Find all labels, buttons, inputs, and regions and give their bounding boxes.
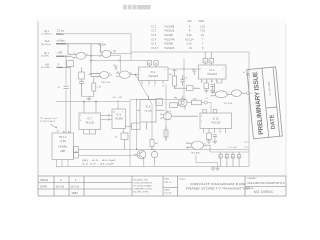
wire G4 output to IC2 — [130, 74, 139, 76]
wire long bottom y166.5 — [56, 166, 249, 168]
svg-text:74LS 132: 74LS 132 — [101, 82, 111, 84]
svg-text:3: 3 — [80, 115, 81, 117]
svg-text:4: 4 — [80, 120, 81, 122]
node B0 input label — [41, 39, 65, 46]
node junctions — [83, 101, 85, 103]
svg-text:DRN: DRN — [164, 179, 169, 181]
pin numbers — [74, 51, 230, 150]
svg-text:9: 9 — [99, 51, 100, 53]
svg-text:R7 (1000) 5V) AMD: R7 (1000) 5V) AMD — [134, 185, 153, 188]
svg-text:P.W. 15: P.W. 15 — [164, 182, 172, 184]
wire row2 — [58, 44, 103, 52]
IC9 box — [137, 96, 165, 130]
svg-text:ISSUE: ISSUE — [40, 178, 48, 182]
resistor R8 — [206, 133, 211, 139]
note arrow — [50, 124, 57, 128]
pin square A — [147, 61, 151, 65]
gate U6b — [227, 90, 246, 97]
svg-text:74LS74A: 74LS74A — [164, 37, 175, 41]
svg-text:IC 7: IC 7 — [87, 117, 92, 120]
svg-text:11: 11 — [130, 73, 132, 75]
svg-text:(4).1: (4).1 — [44, 52, 50, 55]
svg-text:40.4 kHz: 40.4 kHz — [41, 56, 49, 58]
ground — [207, 139, 212, 143]
svg-text:(2): (2) — [113, 51, 116, 53]
node junction — [183, 68, 184, 69]
svg-text:DATE: DATE — [40, 184, 47, 188]
svg-text:MULLARD SOUTHAMPTON LTD: MULLARD SOUTHAMPTON LTD — [248, 182, 285, 185]
svg-text:TR 1.2: TR 1.2 — [59, 136, 67, 139]
svg-text:16-1-80: 16-1-80 — [56, 185, 65, 188]
title cell — [179, 179, 250, 190]
svg-text:AMP: AMP — [60, 150, 65, 153]
IC2 bottom pins — [142, 81, 163, 85]
svg-text:74LS123: 74LS123 — [211, 123, 221, 125]
svg-text:A4: A4 — [63, 130, 65, 133]
svg-text:+2B: +2B — [57, 51, 62, 55]
ground — [211, 167, 216, 171]
svg-text:74LS90: 74LS90 — [115, 119, 124, 121]
svg-text:2: 2 — [97, 77, 98, 79]
cap value labels — [219, 157, 239, 159]
svg-text:MZ.049B/C: MZ.049B/C — [254, 190, 274, 194]
svg-text:12: 12 — [117, 71, 119, 73]
svg-text:14: 14 — [113, 112, 115, 114]
page right edge — [285, 24, 287, 176]
node junction — [90, 60, 91, 61]
svg-text:(B) - 4.5 - 45.2µF: (B) - 4.5 - 45.2µF — [82, 160, 117, 162]
wire long y149.3 — [79, 148, 250, 150]
svg-text:+1 (R): +1 (R) — [59, 141, 66, 143]
wire vertical x91 — [91, 44, 100, 77]
svg-text:TR.2 A(4): TR.2 A(4) — [191, 152, 201, 155]
svg-text:TP: connect 7 on 2: TP: connect 7 on 2 — [40, 117, 58, 120]
svg-text:6: 6 — [74, 58, 75, 60]
svg-text:IC 2: IC 2 — [152, 29, 157, 33]
svg-text:(2): (2) — [205, 98, 208, 100]
svg-text:74LS368: 74LS368 — [164, 24, 175, 28]
wire caps top rail — [210, 151, 249, 153]
resistor R3 — [92, 78, 96, 97]
preliminary issue stamp — [247, 67, 283, 139]
svg-text:5,10: 5,10 — [187, 33, 193, 37]
ground — [210, 89, 215, 93]
svg-text:4.1 4.5 - 41.2µF: 4.1 4.5 - 41.2µF — [82, 163, 115, 165]
svg-text:74LS86: 74LS86 — [164, 42, 173, 46]
svg-text:16: 16 — [225, 157, 227, 159]
transistor Q1 — [178, 96, 187, 111]
svg-text:DATE: DATE — [164, 188, 170, 191]
resistor R6 — [150, 140, 154, 150]
svg-text:23-1-81: 23-1-81 — [71, 185, 80, 188]
wire vertical x152 — [151, 104, 153, 140]
resistor R7 — [187, 100, 204, 105]
svg-text:+5V: +5V — [187, 19, 192, 23]
svg-text:2: 2 — [217, 81, 218, 83]
svg-text:7 16: 7 16 — [200, 29, 206, 33]
wire IC3 pin5 down — [217, 82, 223, 84]
drawn/date cell — [164, 179, 172, 195]
resistor R10 — [164, 126, 168, 141]
resistor R5 — [204, 83, 209, 89]
svg-text:IC 5: IC 5 — [152, 42, 157, 46]
amendment notes cell — [134, 180, 154, 194]
svg-text:25.8V LIMITERS (TL: 25.8V LIMITERS (TL — [134, 183, 154, 185]
svg-text:16: 16 — [232, 157, 234, 159]
svg-text:8: 8 — [204, 144, 205, 146]
node AB input label — [41, 62, 60, 69]
svg-text:1987: 1987 — [71, 191, 78, 195]
svg-text:(B) 470 Hz: (B) 470 Hz — [41, 44, 51, 46]
ground — [215, 167, 219, 171]
svg-text:74 LS 04: 74 LS 04 — [224, 103, 234, 105]
svg-text:7: 7 — [207, 81, 208, 83]
resistor R2 — [79, 67, 85, 81]
pad (2) output — [204, 101, 207, 104]
svg-text:B+0: B+0 — [45, 40, 50, 43]
wire y155.3 — [79, 154, 139, 156]
wire from D1 — [56, 33, 64, 35]
wire bus y99.7 — [130, 99, 187, 101]
svg-text:4: 4 — [200, 68, 201, 70]
svg-text:(2).1: (2).1 — [44, 30, 50, 33]
transistor Q2 — [134, 150, 146, 163]
svg-text:1: 1 — [122, 112, 123, 114]
wire IC8 top stub — [117, 100, 119, 109]
svg-text:15: 15 — [162, 86, 164, 88]
svg-text:16: 16 — [219, 157, 221, 159]
resistor R9 — [170, 103, 181, 108]
capacitor C1 polarized — [64, 86, 69, 88]
svg-text:16: 16 — [238, 157, 240, 159]
capacitor C4 — [211, 85, 215, 89]
wire G2 output — [111, 52, 133, 60]
svg-text:1: 1 — [202, 81, 203, 83]
ground — [213, 139, 218, 143]
pad pin10 — [246, 73, 248, 75]
IC parts list — [152, 19, 206, 50]
svg-text:4: 4 — [140, 69, 141, 71]
wire loop below U11 — [196, 155, 218, 167]
wire vertical x136.7 — [136, 110, 138, 149]
svg-text:4 (TP) TO ADJ 7: 4 (TP) TO ADJ 7 — [40, 120, 56, 123]
svg-text:TITLE: TITLE — [179, 179, 185, 181]
wire stubs to title area — [244, 142, 249, 147]
wire vertical x130 — [129, 100, 131, 167]
wire emitter stub — [144, 163, 155, 167]
trim pot box — [175, 86, 200, 91]
node junction — [135, 74, 137, 76]
gate U1a — [72, 52, 86, 59]
paper tint inside frame — [37, 19, 286, 197]
capacitor C10 — [237, 152, 240, 167]
svg-text:10: 10 — [187, 148, 189, 150]
wire IC9 left pin — [136, 100, 138, 111]
svg-text:74LS04: 74LS04 — [98, 44, 107, 47]
svg-text:1: 1 — [229, 91, 230, 93]
wire cluster bottom — [82, 96, 94, 98]
svg-text:74LS123: 74LS123 — [85, 123, 95, 125]
svg-text:1.2 µs: 1.2 µs — [57, 28, 65, 32]
svg-text:2: 2 — [201, 121, 202, 123]
scanner header boxes — [123, 5, 151, 10]
node C1 input label — [41, 51, 62, 58]
divider block B1 — [67, 61, 74, 67]
drawing frame left border — [37, 21, 39, 176]
svg-text:+5V → 4k7: +5V → 4k7 — [112, 97, 123, 99]
wire top bus — [61, 34, 249, 167]
svg-text:9: 9 — [154, 86, 155, 88]
svg-text:IC 1: IC 1 — [152, 24, 157, 28]
crystal box X1 — [52, 133, 79, 160]
svg-text:3: 3 — [109, 73, 110, 75]
wire gate row bus — [90, 59, 147, 62]
IC3 monostable box — [199, 52, 227, 83]
svg-text:IC 10: IC 10 — [213, 117, 220, 120]
svg-text:74LS123: 74LS123 — [207, 73, 217, 76]
svg-text:+0.4µs: +0.4µs — [57, 39, 66, 43]
svg-text:9: 9 — [212, 81, 213, 83]
svg-text:E(C)4303 - (W): E(C)4303 - (W) — [134, 180, 148, 182]
svg-text:+5V: +5V — [192, 69, 196, 71]
wire row3 — [58, 55, 72, 57]
svg-text:2 16: 2 16 — [200, 24, 206, 28]
IC2 monostable box — [139, 61, 169, 84]
svg-text:IC 3: IC 3 — [210, 68, 215, 72]
svg-text:5: 5 — [74, 53, 75, 55]
svg-text:74LS90: 74LS90 — [164, 33, 173, 37]
capacitor C2 — [79, 82, 84, 97]
wire vertical row4 down — [70, 67, 72, 133]
svg-text:FRAME STORE TV TRANSMITTER: FRAME STORE TV TRANSMITTER — [186, 186, 250, 190]
svg-text:4,10,14: 4,10,14 — [185, 37, 194, 41]
gate U11 — [186, 141, 210, 152]
capacitor C5 box — [121, 129, 128, 150]
svg-text:74LS123: 74LS123 — [164, 46, 175, 50]
IC8 box — [112, 109, 126, 129]
wire vertical bus x181 — [168, 59, 200, 105]
svg-text:IC 6,7: IC 6,7 — [152, 46, 159, 50]
svg-text:6: 6 — [158, 102, 159, 104]
svg-text:5: 5 — [161, 119, 162, 121]
svg-text:74LS123: 74LS123 — [148, 75, 158, 78]
resistor R4 — [173, 69, 177, 90]
wire row4 — [58, 66, 71, 68]
svg-text:8: 8 — [111, 52, 112, 54]
svg-text:IC 2: IC 2 — [151, 70, 156, 74]
svg-text:CHANGED IC4 PIN: CHANGED IC4 PIN — [134, 188, 153, 191]
pin square B — [154, 61, 158, 65]
coupling box C10 — [126, 123, 141, 130]
company / drawing number cell — [246, 177, 285, 194]
svg-text:5: 5 — [164, 69, 165, 71]
gate U6a — [211, 84, 228, 98]
node junction — [65, 56, 66, 57]
svg-text:7: 7 — [148, 86, 149, 88]
annotation note — [40, 117, 58, 123]
svg-text:4: 4 — [161, 113, 162, 115]
IC7 box — [79, 102, 101, 134]
title block text — [40, 178, 80, 195]
wire arrows IC7 to IC8 — [101, 114, 113, 116]
svg-text:GND: GND — [199, 19, 205, 23]
pin labels A4 A2 — [63, 130, 70, 133]
title block outline — [38, 176, 286, 196]
svg-text:9: 9 — [187, 142, 188, 144]
ground — [204, 89, 209, 93]
svg-text:40.1 MHz: 40.1 MHz — [41, 67, 50, 69]
ground — [87, 97, 92, 102]
power +5V tick — [115, 67, 118, 70]
svg-text:16-1-80: 16-1-80 — [164, 192, 172, 194]
node D1 input label — [41, 28, 65, 35]
capacitor C9 — [231, 152, 234, 167]
svg-text:C 1.2 (x3): C 1.2 (x3) — [228, 147, 237, 149]
node junction — [90, 55, 92, 57]
svg-text:A: A — [60, 178, 62, 182]
svg-text:IC 8: IC 8 — [116, 113, 121, 116]
svg-text:2,14: 2,14 — [187, 42, 193, 46]
gate U9 — [160, 113, 198, 120]
svg-text:4: 4 — [87, 54, 88, 56]
svg-text:74LS90: 74LS90 — [144, 110, 152, 112]
svg-text:74LS123: 74LS123 — [164, 29, 175, 33]
wire G2 to U3b — [111, 55, 121, 71]
capacitor C6 — [213, 135, 217, 140]
wire G1 to G2 — [86, 55, 103, 57]
bias equations note — [82, 160, 117, 165]
gate U3b — [116, 71, 130, 78]
gate U1b — [102, 50, 111, 57]
svg-text:COMPANY: COMPANY — [247, 177, 258, 180]
capacitor C7 — [219, 152, 222, 167]
svg-text:+12 MHz at: +12 MHz at — [41, 33, 52, 36]
capacitor C8 — [225, 152, 228, 167]
gate U3a — [100, 72, 112, 79]
svg-text:10: 10 — [99, 56, 101, 58]
svg-text:4.43MHz: 4.43MHz — [58, 147, 68, 149]
svg-text:A2: A2 — [68, 130, 70, 133]
wire diagonal feed — [135, 75, 152, 104]
node junction — [151, 149, 153, 151]
svg-text:1: 1 — [201, 116, 202, 118]
svg-text:No 1985 - E97B: No 1985 - E97B — [134, 192, 149, 194]
transistor Q3 — [151, 149, 157, 163]
svg-text:5: 5 — [222, 68, 223, 70]
svg-text:IC 9: IC 9 — [146, 105, 151, 108]
svg-text:IC 4: IC 4 — [152, 37, 157, 41]
wire branch to G1 — [68, 44, 72, 54]
crystal bottom pins — [57, 160, 69, 167]
IC10 box — [200, 110, 232, 133]
wire mid bus — [56, 101, 130, 103]
capacitor C3 — [180, 75, 184, 86]
wire vertical x166 — [165, 84, 167, 141]
svg-text:A.B: A.B — [45, 63, 49, 66]
wire vertical to lockout box — [65, 56, 67, 133]
svg-text:IC 3: IC 3 — [152, 33, 157, 37]
svg-text:1: 1 — [97, 72, 98, 74]
